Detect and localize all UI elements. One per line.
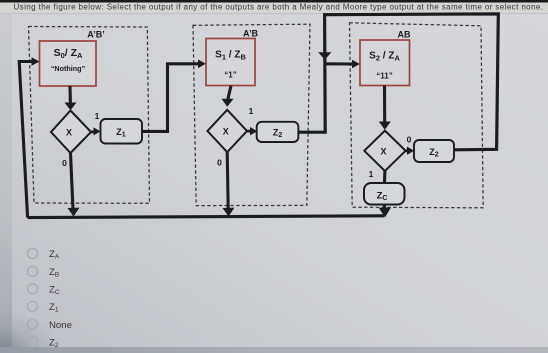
radio option ZA: [28, 249, 38, 259]
top black edge: [0, 0, 548, 3]
radio option Z1: [28, 301, 38, 311]
radio option None: [28, 319, 38, 329]
wire: decision 2 to Z2: [247, 130, 251, 133]
svg-text:“Nothing”: “Nothing”: [51, 64, 86, 73]
wire: Zc down to feedback: [383, 205, 386, 210]
bottom-left corner shadow: [0, 310, 60, 353]
state box S0/ZA: [40, 41, 97, 86]
wire: decision 3 to Zc: [383, 171, 386, 183]
wire: Z1 up to S1 entry: [142, 64, 199, 132]
svg-text:AB: AB: [398, 30, 411, 40]
svg-text:A’B: A’B: [243, 29, 259, 39]
state box S2/ZA: [360, 40, 410, 86]
decision diamond 1: [51, 111, 91, 154]
svg-text:X: X: [380, 146, 386, 156]
wire: decision 2 down to feedback: [227, 152, 228, 209]
svg-text:X: X: [223, 127, 229, 137]
output box Z2: [257, 122, 299, 142]
wire: bottom feedback horizontal: [28, 216, 384, 218]
svg-text:A’B’: A’B’: [87, 30, 105, 40]
output box Z1: [101, 119, 143, 144]
svg-text:“1”: “1”: [224, 71, 236, 80]
dashed state box A'B': [29, 27, 150, 204]
svg-text:1: 1: [369, 169, 374, 179]
svg-text:0: 0: [407, 135, 412, 145]
svg-text:1: 1: [249, 106, 254, 116]
radio option ZB: [28, 266, 38, 276]
dashed state box AB: [350, 23, 484, 208]
state box S1/ZB: [206, 39, 255, 86]
wire: Z2 out, up over top, down right side to Z2(AB): [297, 14, 498, 150]
top question bar: [0, 3, 548, 14]
output box Z2 (AB): [414, 140, 454, 162]
bottom dark band: [0, 347, 548, 353]
wire: S0 to decision 1: [68, 86, 72, 104]
arrowhead down into AB region: [318, 52, 331, 60]
wire: S2 to decision 3: [383, 86, 386, 123]
svg-text:0: 0: [217, 158, 222, 168]
wire: decision 1 down to feedback: [71, 153, 74, 210]
svg-text:Using the figure below: Selec: Using the figure below: Select the outpu…: [14, 3, 544, 12]
svg-text:“11”: “11”: [376, 72, 392, 81]
svg-text:1: 1: [95, 111, 100, 121]
output box Zc: [364, 183, 405, 205]
decision diamond 2: [208, 110, 248, 152]
radio option ZC: [28, 284, 38, 294]
wire: branch into S2: [325, 62, 353, 65]
radio option Z2: [28, 337, 38, 347]
wire: decision 1 to Z1: [91, 130, 94, 133]
svg-text:X: X: [66, 128, 72, 138]
decision diamond 3: [364, 131, 405, 171]
wire: left feedback vertical + entry arrow into S0: [19, 62, 32, 218]
svg-text:0: 0: [62, 158, 67, 168]
dashed state box A'B: [193, 24, 310, 205]
svg-text:None: None: [49, 320, 72, 331]
wire: S1 to decision 2: [228, 86, 231, 100]
wire: decision 3 to Z2(AB): [406, 149, 408, 152]
left darker margin: [0, 13, 12, 353]
